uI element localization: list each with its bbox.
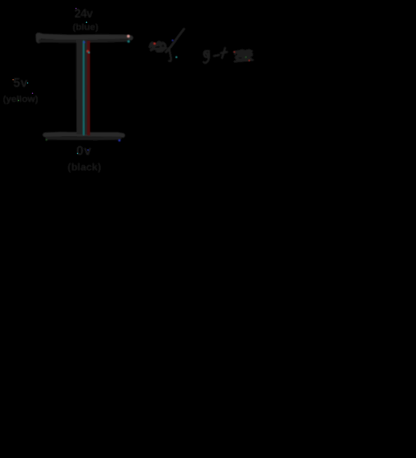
chroma speck: blue (bottom label): [87, 149, 88, 150]
svg-text:(black): (black): [68, 162, 102, 173]
bottom rail bar: [45, 134, 123, 139]
annotation text: green speck: [245, 56, 247, 58]
wire: teal conductor: [83, 41, 85, 135]
chroma speck: teal (bottom label): [77, 153, 78, 154]
node dot teal (bottom-right of top rail): [127, 40, 130, 43]
svg-text:5v: 5v: [13, 76, 28, 90]
wire: dark red conductor: [87, 41, 90, 135]
annotation sketch: red dot: [153, 42, 155, 44]
annotation text: red speck 2: [248, 60, 250, 62]
wire: thick grey conductor between rails: [76, 41, 87, 135]
svg-text:(yellow): (yellow): [3, 94, 38, 105]
svg-text:24v: 24v: [74, 9, 93, 21]
top rail bar: [38, 35, 130, 41]
chroma speck: purple (top label): [75, 8, 76, 9]
annotation sketch: handwritten mark with flick: [150, 29, 184, 61]
annotation sketch: cyan speck: [176, 56, 178, 58]
chroma speck: green (left label): [18, 100, 19, 101]
node dot blue (under top rail): [83, 41, 85, 43]
chroma speck: orange (left label): [12, 79, 13, 80]
chroma speck: cyan (top label): [86, 22, 88, 24]
chroma speck: cyan (left label): [27, 82, 28, 83]
annotation text: handwritten note: [204, 48, 254, 63]
node dot blue (right end of bottom rail): [118, 139, 120, 141]
annotation sketch: blue speck: [172, 40, 174, 42]
junction dot cyan: [88, 51, 90, 53]
svg-text:(blue): (blue): [73, 22, 99, 33]
junction dot red: [86, 50, 89, 53]
node dot green (left end of bottom rail): [46, 139, 48, 141]
svg-text:0v: 0v: [76, 143, 92, 158]
node dot pink (top-right of top rail): [127, 35, 130, 38]
chroma speck: purple (left label): [32, 93, 33, 94]
annotation text: red speck: [234, 51, 236, 53]
